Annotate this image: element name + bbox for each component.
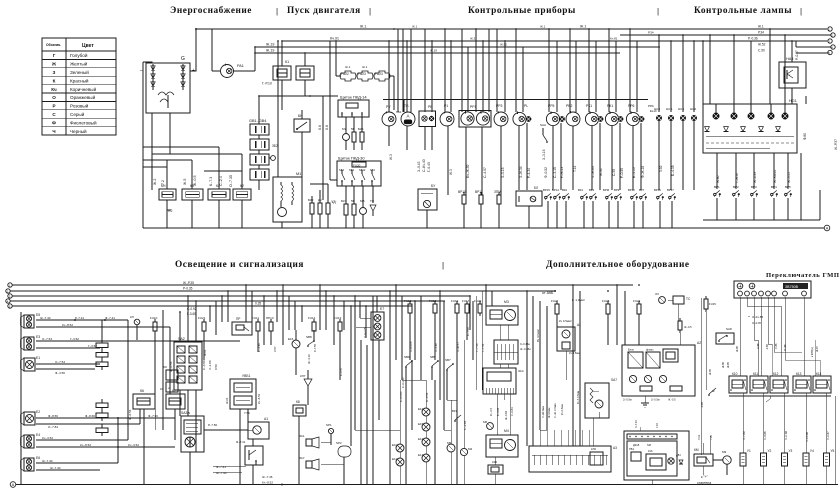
- svg-text:БЛ: БЛ: [534, 186, 538, 190]
- svg-text:Ж: Ж: [712, 389, 715, 393]
- unit BU: [418, 180, 437, 228]
- wire mesh bottom horiz: [355, 380, 599, 446]
- divider: [657, 7, 659, 16]
- svg-text:Ж.-3.55: Ж.-3.55: [787, 172, 791, 183]
- junction dots top: [388, 28, 695, 42]
- svg-text:Кч.-8.52: Кч.-8.52: [262, 481, 273, 485]
- svg-text:В.-4.10: В.-4.10: [632, 167, 636, 178]
- svg-text:Кч.-Ж.30: Кч.-Ж.30: [466, 165, 470, 178]
- svg-text:Вч 4.0мм²: Вч 4.0мм²: [536, 329, 540, 342]
- svg-text:FU23: FU23: [375, 72, 383, 76]
- fuse FU25: [678, 318, 692, 345]
- svg-text:|: |: [657, 7, 659, 16]
- svg-text:Е16: Е16: [288, 337, 294, 341]
- svg-text:Р-0.35: Р-0.35: [183, 287, 193, 291]
- relay К13: [793, 372, 811, 393]
- ground terminal A right: [824, 225, 830, 231]
- divider: [369, 7, 371, 16]
- svg-text:Кч.91: Кч.91: [330, 37, 339, 41]
- svg-text:З.-Кч.65: З.-Кч.65: [409, 341, 413, 352]
- horn ZA7: [299, 456, 319, 470]
- svg-text:Е13: Е13: [418, 453, 424, 457]
- svg-text:У2: У2: [768, 449, 772, 453]
- lamp E11: [392, 457, 404, 484]
- svg-text:Блок: Блок: [628, 348, 635, 352]
- svg-text:SAА: SAА: [540, 123, 546, 127]
- svg-text:К: К: [53, 78, 56, 83]
- svg-text:Т.14: Т.14: [573, 166, 577, 172]
- svg-text:Ж.3: Ж.3: [389, 154, 393, 160]
- svg-text:ЗЧ: ЗЧ: [655, 292, 659, 296]
- svg-text:Красный: Красный: [70, 77, 89, 83]
- svg-text:ВК7: ВК7: [452, 409, 457, 413]
- wire terminal labels: [748, 25, 831, 54]
- unit A1: [248, 417, 269, 439]
- svg-text:С.-3.15: С.-3.15: [553, 167, 557, 178]
- svg-text:НСЗ: НСЗ: [678, 107, 684, 111]
- svg-text:Е4: Е4: [36, 433, 40, 437]
- svg-text:Ж.1: Ж.1: [345, 65, 351, 69]
- svg-text:Черный: Черный: [70, 128, 87, 134]
- svg-text:A: A: [12, 482, 15, 487]
- svg-text:Ж.-7.46: Ж.-7.46: [262, 475, 273, 479]
- svg-text:НСБ: НСБ: [666, 107, 672, 111]
- svg-text:Ф.-Ж.18: Ф.-Ж.18: [641, 166, 645, 178]
- svg-text:С.35: С.35: [612, 169, 616, 176]
- svg-text:Ж.19: Ж.19: [430, 49, 437, 53]
- svg-text:УВБ1: УВБ1: [242, 374, 251, 378]
- svg-text:Кч.81: Кч.81: [610, 37, 618, 41]
- switch SB7: [445, 358, 454, 400]
- starter M1: [273, 172, 302, 222]
- svg-text:ЗВ750В: ЗВ750В: [785, 285, 799, 289]
- sensor BK3: [589, 188, 597, 200]
- fuse FU13: [334, 316, 342, 334]
- svg-text:К10: К10: [732, 372, 738, 376]
- sensor BP16: [654, 188, 664, 200]
- svg-text:М9: М9: [722, 450, 726, 454]
- svg-text:О.-7.35: О.-7.35: [229, 175, 233, 187]
- svg-text:ВР4: ВР4: [771, 185, 777, 189]
- svg-text:Ж.-Р.37: Ж.-Р.37: [834, 139, 838, 150]
- wire bus right: [620, 34, 831, 36]
- wire bus K1 top: [195, 28, 827, 30]
- relay К10: [729, 372, 747, 393]
- wire fuse drops2: [410, 300, 480, 385]
- svg-text:Г.-3.52: Г.-3.52: [70, 337, 79, 341]
- svg-text:З.-3.80: З.-3.80: [434, 343, 438, 352]
- svg-text:З.-Ж/.0мм: З.-Ж/.0мм: [541, 406, 545, 418]
- switch SA8: [716, 327, 734, 344]
- lamp HC5: [666, 107, 674, 121]
- svg-text:Ж.86: Ж.86: [721, 361, 725, 368]
- wire label G-R10: [262, 82, 272, 86]
- wire E3: [36, 337, 240, 348]
- section header: [175, 260, 304, 270]
- wire gen left up: [143, 62, 152, 63]
- svg-text:К6: К6: [140, 389, 144, 393]
- wire sensor drops to bus: [464, 201, 672, 228]
- wire right edge: [834, 396, 836, 484]
- svg-text:Обознач.: Обознач.: [46, 43, 61, 47]
- svg-text:Е12: Е12: [418, 437, 424, 441]
- svg-text:С.50: С.50: [758, 49, 765, 53]
- svg-text:Цвет: Цвет: [82, 43, 94, 49]
- ground terminal A left: [10, 482, 16, 488]
- relay K1b: [296, 66, 314, 80]
- svg-text:ВР9: ВР9: [614, 188, 620, 192]
- wire PKD link: [309, 95, 338, 97]
- wire bus Zh19 b: [255, 52, 620, 54]
- svg-text:З.-С.88: З.-С.88: [784, 431, 788, 440]
- fuse FU11: [252, 316, 260, 334]
- wire fuses: [336, 41, 394, 110]
- svg-text:З.-Кч.86: З.-Кч.86: [805, 432, 809, 442]
- svg-text:А2: А2: [697, 341, 701, 345]
- svg-text:Р.-7.41: Р.-7.41: [75, 316, 84, 320]
- wire labels HG1: [716, 133, 807, 183]
- svg-text:флокс: флокс: [646, 348, 654, 352]
- svg-text:SM: SM: [647, 443, 651, 447]
- svg-text:|: |: [442, 261, 444, 270]
- svg-text:С.86: С.86: [774, 343, 778, 349]
- svg-text:К.-Кч.60: К.-Кч.60: [401, 377, 405, 388]
- svg-text:Кч.-3.52: Кч.-3.52: [128, 443, 139, 447]
- lamp E10: [392, 443, 404, 458]
- fuse FU18: [429, 299, 437, 316]
- svg-text:РР1: РР1: [470, 105, 477, 109]
- unit UVB1: [225, 374, 261, 409]
- svg-text:КЛ: КЛ: [130, 315, 134, 319]
- svg-text:КМ: КМ: [694, 448, 699, 452]
- svg-text:Ф.-7.41: Ф.-7.41: [105, 316, 115, 320]
- junction dots buses: [254, 28, 793, 54]
- sensor ВР1: [714, 185, 721, 197]
- svg-text:HG1: HG1: [789, 99, 797, 103]
- svg-text:Дополнительное оборудование: Дополнительное оборудование: [546, 259, 690, 270]
- wire bus b5: [12, 305, 412, 307]
- svg-text:Кч.-8.52: Кч.-8.52: [62, 323, 73, 327]
- unit M3: [486, 300, 518, 325]
- sensor ВР4: [771, 185, 778, 197]
- wire label Zh19: [266, 43, 274, 53]
- lamp E16: [288, 330, 300, 375]
- section header: [546, 259, 690, 270]
- switch SA2: [174, 337, 202, 390]
- svg-text:ВР1: ВР1: [714, 185, 720, 189]
- svg-text:К1: К1: [285, 60, 289, 64]
- svg-text:О: О: [52, 95, 56, 100]
- svg-text:К13: К13: [796, 372, 802, 376]
- wire relays K67: [144, 409, 175, 484]
- svg-text:Освещение и сигнализация: Освещение и сигнализация: [175, 260, 304, 270]
- wire GMP drops: [740, 297, 820, 376]
- wire 2B7: [475, 291, 485, 390]
- wire labels mid col: [401, 327, 470, 388]
- svg-text:Ф.80: Ф.80: [803, 133, 807, 140]
- svg-text:З.-0.5м: З.-0.5м: [623, 398, 632, 402]
- svg-text:Е1: Е1: [36, 356, 40, 360]
- wire bottom bus top band: [143, 227, 824, 229]
- fuse FU23a: [357, 71, 373, 81]
- sensor SP2: [336, 441, 351, 484]
- svg-text:Ж.1: Ж.1: [360, 25, 366, 29]
- wire gauge top bus: [383, 99, 648, 101]
- svg-text:Кч.0,5мм: Кч.0,5мм: [560, 404, 564, 415]
- sensor BK2: [562, 188, 570, 200]
- svg-text:Ф.-7.56: Ф.-7.56: [148, 414, 158, 418]
- wire lamp col: [399, 380, 429, 444]
- lamp block HG1: [703, 99, 797, 153]
- svg-text:К.-З.80: К.-З.80: [257, 343, 261, 352]
- wire battery: [259, 114, 278, 190]
- wire bus Zh19 a: [255, 46, 660, 48]
- switch SA3: [181, 411, 204, 452]
- gauge PP5: [546, 104, 564, 126]
- svg-text:SP1: SP1: [326, 423, 332, 427]
- lamp KL: [130, 315, 140, 340]
- svg-text:Ж.-7.40: Ж.-7.40: [216, 471, 227, 475]
- unit TC: [655, 292, 691, 321]
- svg-text:0.35: 0.35: [255, 302, 261, 306]
- svg-text:FU11: FU11: [252, 316, 259, 320]
- svg-text:SA3 ч: SA3 ч: [181, 411, 190, 415]
- wire E1: [36, 360, 100, 375]
- svg-text:А3: А3: [613, 446, 617, 450]
- svg-text:SB3: SB3: [349, 168, 354, 172]
- svg-text:Кч.З,5мм: Кч.З,5мм: [569, 351, 580, 355]
- svg-text:FU18: FU18: [429, 299, 437, 303]
- svg-text:Ж.1: Ж.1: [362, 65, 368, 69]
- wire gauge feeds: [389, 29, 694, 112]
- svg-text:SP2: SP2: [336, 441, 342, 445]
- svg-text:С-0.92: С-0.92: [187, 307, 197, 311]
- svg-text:ВР10: ВР10: [458, 190, 466, 194]
- svg-text:Р.-Ж.13: Р.-Ж.13: [560, 167, 564, 178]
- svg-text:Ж.4.0мм: Ж.4.0мм: [547, 407, 551, 418]
- wire mesh bottom mid: [354, 284, 640, 446]
- svg-text:ДК18: ДК18: [633, 443, 640, 447]
- wire A1: [213, 439, 253, 484]
- headlight E1: [21, 356, 41, 371]
- lamp block E7: [371, 307, 384, 340]
- wire E6: [36, 459, 118, 470]
- svg-text:ЗА1: ЗА1: [299, 434, 305, 438]
- svg-text:|: |: [276, 7, 278, 16]
- lamp HC4: [654, 107, 662, 121]
- svg-text:0.50: 0.50: [214, 364, 218, 370]
- svg-text:Р.-Г.55: Р.-Г.55: [313, 343, 317, 352]
- svg-text:БК5: БК5: [358, 127, 364, 131]
- solenoid У2: [761, 449, 772, 485]
- wire label 02: [167, 209, 173, 213]
- svg-text:ЗПМ: ЗПМ: [494, 190, 501, 194]
- svg-text:ВР16: ВР16: [654, 188, 661, 192]
- svg-text:ПР: ПР: [236, 317, 240, 321]
- svg-text:Е7: Е7: [380, 307, 384, 311]
- fuse PR13: [266, 316, 274, 334]
- unit BL: [516, 186, 542, 228]
- headlight E2: [21, 410, 41, 425]
- ammeter PA1: [221, 64, 244, 78]
- wire E4: [36, 436, 175, 448]
- wire bus b3: [12, 295, 470, 297]
- svg-text:ВР15: ВР15: [543, 188, 550, 192]
- svg-text:Е14: Е14: [418, 407, 424, 411]
- svg-text:Кч-З 0.5мм: Кч-З 0.5мм: [576, 391, 580, 404]
- svg-text:7.20: 7.20: [656, 423, 659, 428]
- wire A2 bottom labels: [623, 398, 676, 402]
- svg-text:Ж.80: Ж.80: [716, 175, 720, 183]
- svg-text:З.10: З.10: [697, 434, 701, 440]
- wire ammeter: [212, 29, 255, 71]
- svg-text:А: А: [406, 114, 409, 119]
- generator G: [140, 56, 195, 113]
- fuse FU27: [551, 299, 559, 327]
- svg-text:Р.34: Р.34: [648, 31, 654, 35]
- wire ot AKB: [542, 290, 556, 295]
- svg-text:–: –: [140, 68, 143, 74]
- svg-text:О.-7.54: О.-7.54: [55, 360, 65, 364]
- wire BK: [301, 110, 303, 177]
- fuse FU19: [451, 299, 459, 316]
- svg-text:Желтый: Желтый: [70, 61, 88, 67]
- svg-text:З.-0.4Би: З.-0.4Би: [520, 342, 530, 346]
- svg-text:З.-7.20: З.-7.20: [635, 420, 638, 428]
- svg-text:Ф.-7.41: Ф.-7.41: [216, 465, 226, 469]
- svg-text:ВР2: ВР2: [733, 185, 739, 189]
- preheater unit PB: [624, 431, 689, 480]
- svg-text:Е3: Е3: [36, 335, 40, 339]
- svg-text:Кч.-3.52: Кч.-3.52: [42, 436, 53, 440]
- svg-text:Ж.52: Ж.52: [500, 43, 507, 47]
- section header: [468, 5, 576, 16]
- svg-text:ВР5: ВР5: [785, 185, 791, 189]
- relay KM: [694, 448, 713, 466]
- svg-text:Ж.-Р.35: Ж.-Р.35: [183, 281, 194, 285]
- fuse FU10: [150, 316, 158, 394]
- svg-text:К8: К8: [296, 400, 300, 404]
- svg-text:ВК1: ВК1: [578, 188, 583, 192]
- svg-text:Г.-7.56: Г.-7.56: [481, 343, 485, 352]
- svg-text:от АКБ: от АКБ: [542, 291, 554, 295]
- svg-text:З.-Кч.65: З.-Кч.65: [363, 327, 367, 338]
- wire HG1 right vertical: [801, 96, 806, 220]
- fuse strip PR: [96, 339, 108, 436]
- sensor ВР2: [733, 185, 740, 197]
- svg-text:Зеленый: Зеленый: [70, 69, 89, 75]
- svg-text:Г.-0.40: Г.-0.40: [427, 162, 431, 172]
- svg-text:О.-7.84: О.-7.84: [48, 425, 58, 429]
- svg-text:З.-0.43: З.-0.43: [417, 161, 421, 172]
- section header: [287, 6, 361, 16]
- svg-text:Ж.19: Ж.19: [266, 43, 274, 47]
- svg-text:Ж.85: Ж.85: [726, 361, 730, 368]
- svg-text:З.-К.87: З.-К.87: [826, 431, 830, 440]
- svg-text:-0.85: -0.85: [700, 402, 704, 408]
- svg-text:Ж.3: Ж.3: [449, 169, 453, 175]
- wire labels horn area: [262, 475, 283, 486]
- svg-text:Ф.-7.41: Ф.-7.41: [236, 440, 246, 444]
- sensor BK7: [452, 409, 467, 430]
- svg-text:М6: М6: [483, 420, 487, 424]
- svg-text:SB7: SB7: [445, 358, 451, 362]
- relay К11: [750, 372, 768, 393]
- svg-text:Ф.-8.56: Ф.-8.56: [48, 414, 58, 418]
- wire E7: [356, 296, 377, 338]
- fuse FU15: [701, 296, 716, 455]
- motor M9: [722, 450, 731, 464]
- svg-text:Р.-4.34: Р.-4.34: [527, 168, 531, 178]
- wire relay K1: [282, 41, 305, 110]
- svg-text:Голубой: Голубой: [70, 52, 88, 58]
- wire vert left mid: [102, 310, 170, 463]
- wire GMP labels: [721, 315, 819, 368]
- svg-text:К.-З.80: К.-З.80: [202, 360, 206, 370]
- svg-text:Ж.1: Ж.1: [580, 25, 586, 29]
- fuse FU22: [340, 71, 356, 81]
- lamp HC3: [678, 107, 686, 121]
- svg-text:FU29: FU29: [474, 299, 482, 303]
- svg-text:О.-7.54: О.-7.54: [42, 337, 52, 341]
- unit PR: [232, 317, 252, 335]
- svg-text:Контрольные приборы: Контрольные приборы: [468, 5, 576, 16]
- svg-text:М1: М1: [296, 172, 301, 176]
- lamp E15: [418, 422, 430, 438]
- svg-text:К12: К12: [773, 372, 779, 376]
- svg-text:Энергоснабжение: Энергоснабжение: [170, 5, 252, 16]
- gauge P1: [440, 104, 454, 126]
- wire label K10mm: [536, 298, 585, 342]
- svg-text:FU13: FU13: [334, 316, 342, 320]
- svg-text:G: G: [181, 56, 185, 62]
- gauge PS boxed: [419, 105, 436, 127]
- svg-text:FU16: FU16: [404, 299, 412, 303]
- sensor BP11: [475, 190, 483, 228]
- sensor BP15: [543, 188, 552, 200]
- svg-text:З.-0.5м: З.-0.5м: [651, 398, 660, 402]
- relay K4: [208, 184, 230, 200]
- svg-text:Ф: Ф: [52, 120, 56, 125]
- solenoid У1: [740, 449, 751, 485]
- wire PB: [635, 420, 659, 484]
- svg-text:ВРМ: ВРМ: [603, 188, 610, 192]
- wire mesh top extra: [143, 100, 419, 185]
- svg-text:ПА1: ПА1: [396, 110, 402, 114]
- svg-text:Ж.-7.40: Ж.-7.40: [42, 459, 53, 463]
- wire bus b4: [10, 300, 445, 302]
- svg-text:Ж.-4.10: Ж.-4.10: [307, 354, 311, 364]
- wire bus labels: [183, 281, 261, 316]
- fuse FU28: [602, 299, 610, 345]
- wire SA2: [169, 296, 218, 452]
- svg-text:ВР17: ВР17: [667, 188, 674, 192]
- svg-text:Ж.1: Ж.1: [540, 25, 546, 29]
- svg-text:К.-0.84: К.-0.84: [496, 407, 500, 416]
- svg-text:У3: У3: [789, 449, 793, 453]
- sensor SP1: [326, 423, 334, 445]
- svg-text:О.-0.56: О.-0.56: [425, 392, 429, 402]
- fuse FU24: [633, 299, 641, 345]
- svg-text:З.-Кч.86: З.-Кч.86: [752, 315, 763, 319]
- switch below A1: [245, 446, 263, 465]
- radio unit A2: [622, 341, 701, 396]
- svg-text:Ж.2: Ж.2: [153, 179, 157, 185]
- svg-text:РА1: РА1: [237, 64, 244, 68]
- svg-text:Ф.-3.56: Ф.-3.56: [55, 371, 65, 375]
- svg-text:А1: А1: [264, 417, 268, 421]
- sensor BP14: [552, 188, 561, 200]
